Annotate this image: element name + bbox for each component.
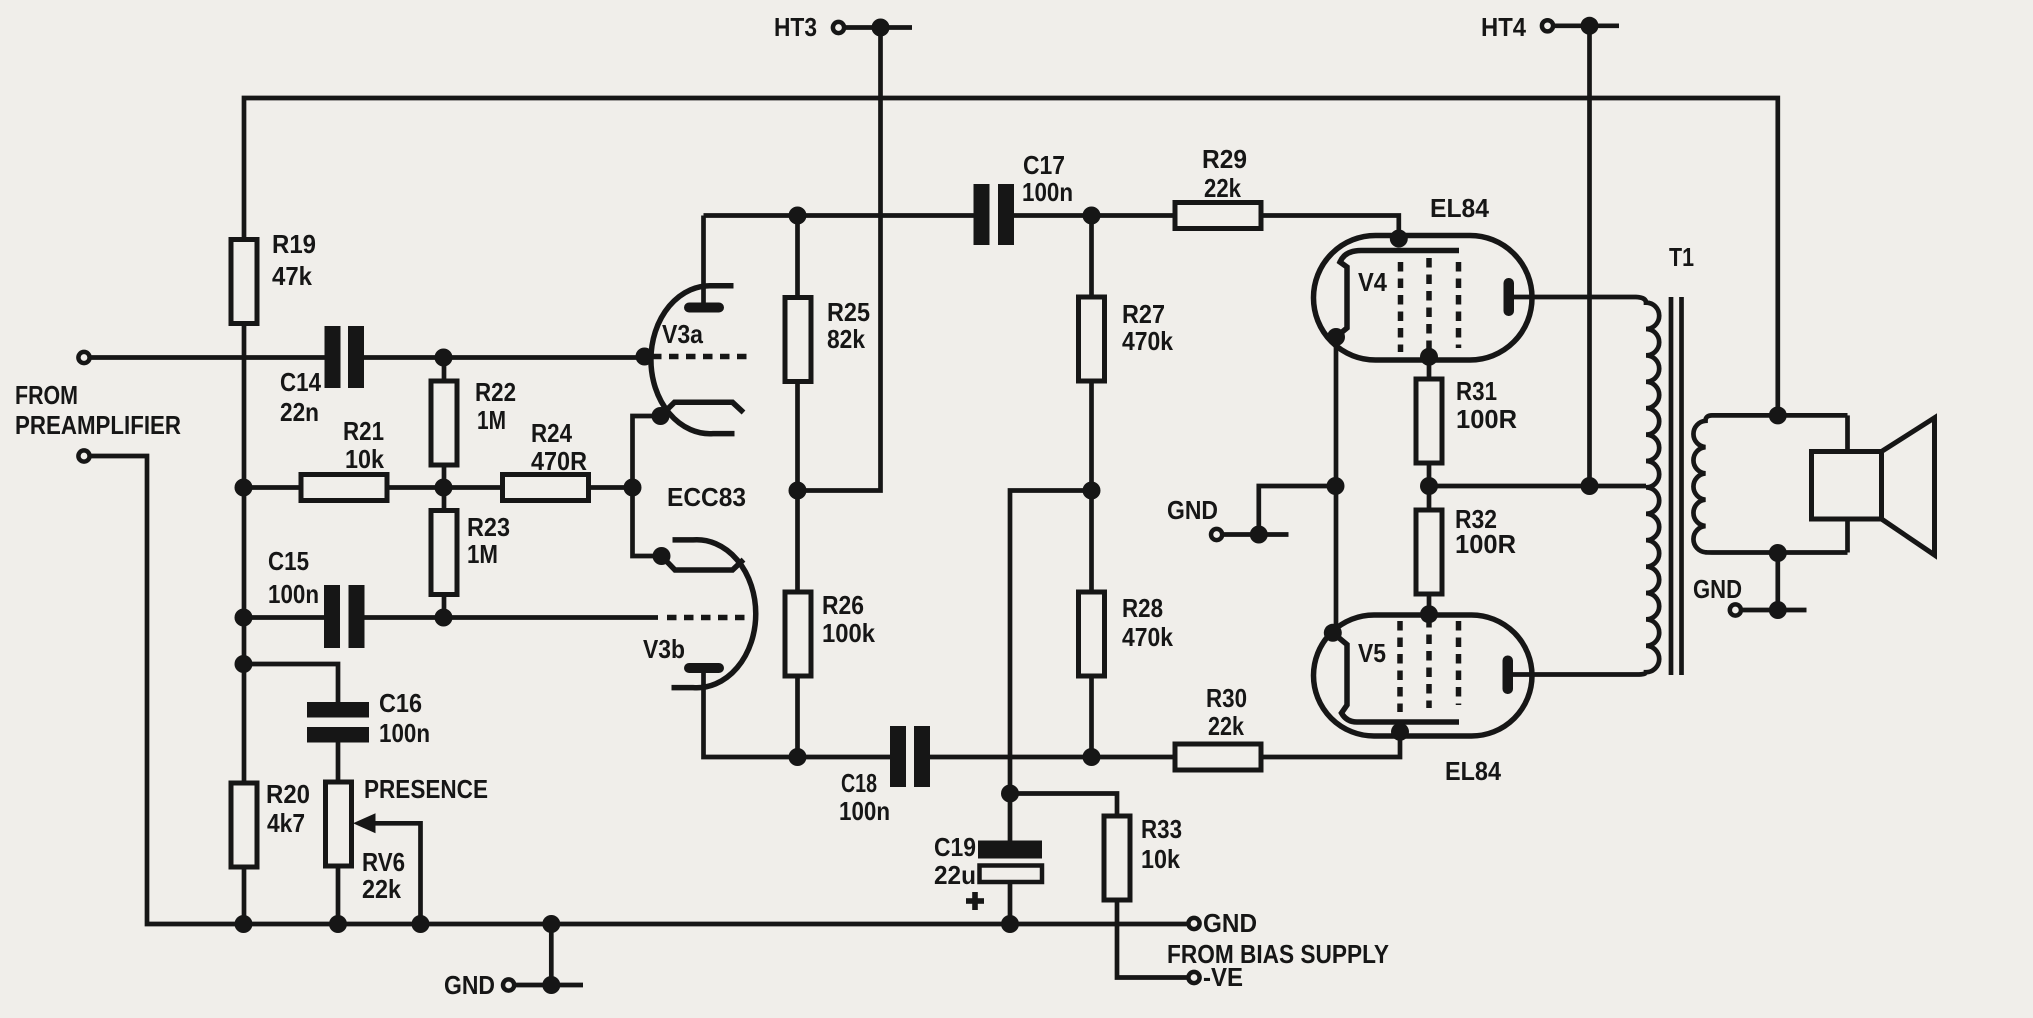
node ground rail wiper: [412, 915, 430, 933]
svg-text:1M: 1M: [467, 539, 498, 569]
resistor R28 470k: [1079, 592, 1105, 676]
svg-text:HT4: HT4: [1481, 12, 1526, 42]
svg-text:22k: 22k: [1204, 173, 1241, 203]
pentode V5 grid g3 (dashed): [1456, 621, 1462, 705]
pentode V4 grid g3 (dashed): [1456, 262, 1462, 348]
node ground terminal bottom: [542, 976, 560, 994]
svg-text:ECC83: ECC83: [667, 482, 746, 512]
svg-text:C15: C15: [268, 546, 309, 576]
node ground rail C19: [1001, 915, 1019, 933]
svg-text:470k: 470k: [1122, 622, 1173, 652]
wire R22-R23 chain: [442, 358, 447, 618]
svg-text:22k: 22k: [362, 874, 401, 904]
svg-text:GND: GND: [1203, 908, 1257, 938]
triode V3a grid (dashed): [652, 354, 748, 360]
wire HT3 stub: [846, 25, 913, 30]
svg-text:C16: C16: [379, 688, 422, 718]
node V5 cathode: [1324, 624, 1342, 642]
resistor R22 1M: [431, 381, 457, 465]
pentode V5 grid g2 (dashed): [1426, 618, 1432, 708]
wire secondary top to speaker: [1845, 415, 1850, 451]
wire C15 to V3b grid: [364, 615, 658, 620]
potentiometer RV6 wiper arrow: [353, 813, 376, 833]
svg-text:100n: 100n: [1022, 177, 1073, 207]
capacitor C19 polarity plus sign: [966, 898, 984, 904]
resistor R27 470k: [1079, 297, 1105, 381]
wire C15 left lead: [244, 615, 325, 620]
transformer T1 secondary winding: [1693, 415, 1847, 552]
svg-text:47k: 47k: [272, 261, 312, 291]
wire input 1 to C14: [92, 355, 325, 360]
node HT4 junction: [1581, 17, 1599, 35]
svg-text:470R: 470R: [531, 446, 587, 476]
wire RV6 wiper: [372, 823, 421, 924]
resistor R31 100R: [1416, 379, 1442, 463]
node V3b cathode entry: [653, 547, 671, 565]
terminal GND bottom right: [1188, 918, 1199, 929]
svg-text:82k: 82k: [827, 324, 865, 354]
node HT3 junction: [872, 19, 890, 37]
node C17 out / R27 / R29: [1083, 207, 1101, 225]
svg-text:R24: R24: [531, 418, 572, 448]
wire V3a plate to C17: [704, 216, 974, 303]
wire C18 to R30: [930, 755, 1175, 760]
wire R21 left lead: [244, 485, 302, 490]
svg-text:100R: 100R: [1456, 404, 1517, 434]
node C14 output / R22 top: [435, 349, 453, 367]
wire R21-R24 link: [389, 485, 503, 490]
wire C17 to R29: [1014, 213, 1175, 218]
resistor R24 470R: [503, 475, 589, 501]
resistor R30 22k: [1175, 744, 1261, 770]
wire R33 to -VE: [1117, 900, 1187, 978]
resistor R20 4k7: [231, 783, 257, 867]
svg-text:V5: V5: [1358, 638, 1386, 668]
triode V3a envelope: [651, 286, 735, 434]
svg-text:V4: V4: [1358, 267, 1387, 297]
capacitor C18 100n: [890, 726, 906, 787]
node ground rail RV6: [329, 915, 347, 933]
terminal GND bottom left: [503, 979, 514, 990]
terminal GND mid: [1211, 529, 1222, 540]
svg-text:R19: R19: [272, 229, 316, 259]
node R21-R24-R22-R23: [435, 479, 453, 497]
wire R29 to V4 grid: [1259, 216, 1399, 239]
pentode V5 plate: [1503, 656, 1514, 695]
triode V3b cathode: [662, 556, 744, 570]
svg-text:EL84: EL84: [1445, 756, 1501, 786]
wire C14 to V3a grid: [364, 355, 641, 360]
terminal -VE: [1188, 972, 1199, 983]
triode V3b plate: [684, 663, 724, 673]
node V5 screen g2: [1420, 605, 1438, 623]
svg-text:R22: R22: [475, 377, 516, 407]
wire HT4 stub: [1555, 23, 1620, 28]
svg-text:4k7: 4k7: [267, 808, 305, 838]
wire HT3 feed to R25-R26 node: [798, 28, 881, 491]
wire left rail: [242, 324, 247, 925]
wire ground spur bottom left: [516, 924, 583, 985]
node V4 grid g1: [1390, 230, 1408, 248]
svg-text:C17: C17: [1023, 150, 1065, 180]
svg-text:EL84: EL84: [1430, 193, 1490, 223]
pentode V5 cathode: [1333, 633, 1459, 722]
resistor R19 47k: [231, 240, 257, 324]
svg-text:100n: 100n: [839, 796, 890, 826]
capacitor C16 100n: [307, 702, 369, 718]
svg-text:R23: R23: [467, 512, 510, 542]
svg-text:C19: C19: [934, 832, 976, 862]
svg-text:10k: 10k: [1141, 844, 1180, 874]
node V5 grid g1: [1391, 723, 1409, 741]
svg-text:100R: 100R: [1455, 529, 1516, 559]
svg-text:R27: R27: [1122, 299, 1165, 329]
svg-text:22n: 22n: [280, 397, 319, 427]
terminal HT4: [1542, 20, 1553, 31]
speaker LS1 box: [1812, 452, 1882, 520]
node C15 left / NFB rail: [235, 609, 253, 627]
svg-text:T1: T1: [1669, 242, 1694, 272]
potentiometer RV6 22k body: [326, 782, 352, 866]
node ground rail R20: [235, 915, 253, 933]
capacitor C19 22u (electrolytic): [978, 841, 1042, 859]
wire screen chain R31-R32: [1427, 357, 1432, 614]
resistor R26 100k: [785, 592, 811, 676]
svg-text:22k: 22k: [1208, 711, 1244, 741]
wire R27-R28 chain: [1089, 216, 1094, 758]
svg-text:GND: GND: [1167, 495, 1218, 525]
node V4 screen g2: [1420, 348, 1438, 366]
capacitor C17 100n: [974, 184, 990, 245]
pentode V5 grid g1 (dashed): [1397, 621, 1403, 712]
wire C16 branch: [244, 664, 339, 702]
node C16 branch: [235, 655, 253, 673]
svg-text:1M: 1M: [477, 405, 506, 435]
node HT4 / primary CT: [1581, 477, 1599, 495]
svg-text:R29: R29: [1202, 144, 1247, 174]
node R24 / cathode bias: [624, 479, 642, 497]
svg-text:PRESENCE: PRESENCE: [364, 774, 488, 804]
svg-text:100k: 100k: [822, 618, 875, 648]
resistor R25 82k: [785, 298, 811, 382]
wire ground spur transformer: [1743, 553, 1807, 610]
wire R27-R28 node to C19: [1010, 491, 1092, 841]
node V4 cathode: [1327, 328, 1345, 346]
svg-text:PREAMPLIFIER: PREAMPLIFIER: [15, 410, 181, 440]
svg-text:GND: GND: [444, 970, 495, 1000]
wire R30 to V5 grid: [1259, 732, 1400, 757]
svg-text:22u: 22u: [934, 860, 976, 890]
node ground rail spur: [542, 915, 560, 933]
svg-text:V3b: V3b: [643, 634, 685, 664]
triode V3b envelope: [672, 540, 756, 688]
node C19 / R33 branch: [1001, 785, 1019, 803]
pentode V4 cathode: [1336, 251, 1459, 338]
svg-text:C14: C14: [280, 367, 321, 397]
svg-text:R30: R30: [1206, 683, 1247, 713]
svg-text:FROM BIAS SUPPLY: FROM BIAS SUPPLY: [1167, 939, 1389, 969]
node R27 / R28 / bias feed: [1083, 482, 1101, 500]
svg-text:R28: R28: [1122, 593, 1163, 623]
node cathode rail ground tap: [1327, 477, 1345, 495]
transformer T1 primary winding: [1513, 297, 1659, 675]
wire C19 node to R33: [1010, 794, 1117, 817]
node C15 out / R23: [435, 609, 453, 627]
speaker LS1 cone: [1882, 418, 1935, 555]
svg-text:R25: R25: [827, 297, 870, 327]
pentode V4 grid g1 (dashed): [1398, 262, 1404, 352]
transformer T1 core: [1671, 297, 1682, 675]
svg-text:470k: 470k: [1122, 326, 1173, 356]
triode V3a plate: [684, 303, 724, 313]
terminal HT3: [833, 22, 844, 33]
wire ground spur cathodes: [1224, 486, 1336, 535]
svg-text:-VE: -VE: [1203, 962, 1243, 992]
svg-text:C18: C18: [841, 768, 877, 798]
triode V3a cathode: [661, 402, 744, 416]
terminal input 1: [78, 352, 89, 363]
wire V3b plate lead: [704, 673, 891, 757]
terminal input 2: [78, 450, 89, 461]
svg-text:R21: R21: [343, 416, 384, 446]
terminal GND transformer: [1730, 604, 1741, 615]
node secondary top / NFB: [1769, 406, 1787, 424]
svg-text:RV6: RV6: [362, 847, 405, 877]
node V3a cathode entry: [652, 407, 670, 425]
wire C16 to RV6 and rail: [336, 743, 341, 925]
svg-text:100n: 100n: [268, 579, 319, 609]
node V3a plate / R25: [789, 207, 807, 225]
svg-text:R20: R20: [266, 779, 310, 809]
wire R25-R26 chain: [795, 216, 800, 758]
svg-text:V3a: V3a: [662, 319, 703, 349]
pentode V5 envelope: [1314, 615, 1533, 736]
node V3a grid entry: [636, 348, 654, 366]
pentode V4 plate: [1504, 278, 1515, 316]
node ground terminal mid: [1250, 526, 1268, 544]
resistor R23 1M: [431, 511, 457, 595]
node R28 / R30 wire: [1083, 748, 1101, 766]
wire cathode rail V4-V5: [1334, 337, 1339, 633]
capacitor C15 100n: [324, 585, 340, 648]
svg-text:HT3: HT3: [774, 12, 817, 42]
resistor R32 100R: [1416, 510, 1442, 594]
wire C19 to ground rail: [1008, 882, 1013, 924]
svg-text:10k: 10k: [345, 444, 384, 474]
wire secondary bottom to speaker: [1845, 519, 1850, 553]
svg-text:R26: R26: [822, 590, 864, 620]
svg-text:GND: GND: [1693, 574, 1742, 604]
resistor R21 10k: [301, 475, 387, 501]
wire screen rail to CT: [1429, 484, 1646, 489]
svg-text:R31: R31: [1456, 376, 1497, 406]
resistor R29 22k: [1175, 203, 1261, 229]
wire input 2 and bottom rail: [92, 456, 1187, 924]
wire HT4 feed: [1587, 26, 1592, 486]
triode V3b grid (dashed): [667, 615, 748, 621]
node NFB rail / R21: [235, 479, 253, 497]
svg-text:100n: 100n: [379, 718, 430, 748]
node screen rail R31-R32: [1420, 477, 1438, 495]
node transformer ground: [1769, 601, 1787, 619]
wire V3a cathode lead: [633, 416, 662, 556]
node V3b plate / R26: [789, 748, 807, 766]
wire R24 to cathode node: [588, 485, 633, 490]
pentode V4 grid g2 (dashed): [1426, 258, 1432, 352]
wire top feedback rail: [244, 98, 1778, 415]
node HT3 / R25 / R26: [789, 482, 807, 500]
capacitor C14 22n: [325, 326, 341, 388]
svg-text:R33: R33: [1141, 814, 1182, 844]
pentode V4 envelope: [1314, 236, 1533, 361]
resistor R33 10k: [1104, 816, 1130, 900]
node secondary bottom: [1769, 544, 1787, 562]
svg-text:FROM: FROM: [15, 380, 78, 410]
